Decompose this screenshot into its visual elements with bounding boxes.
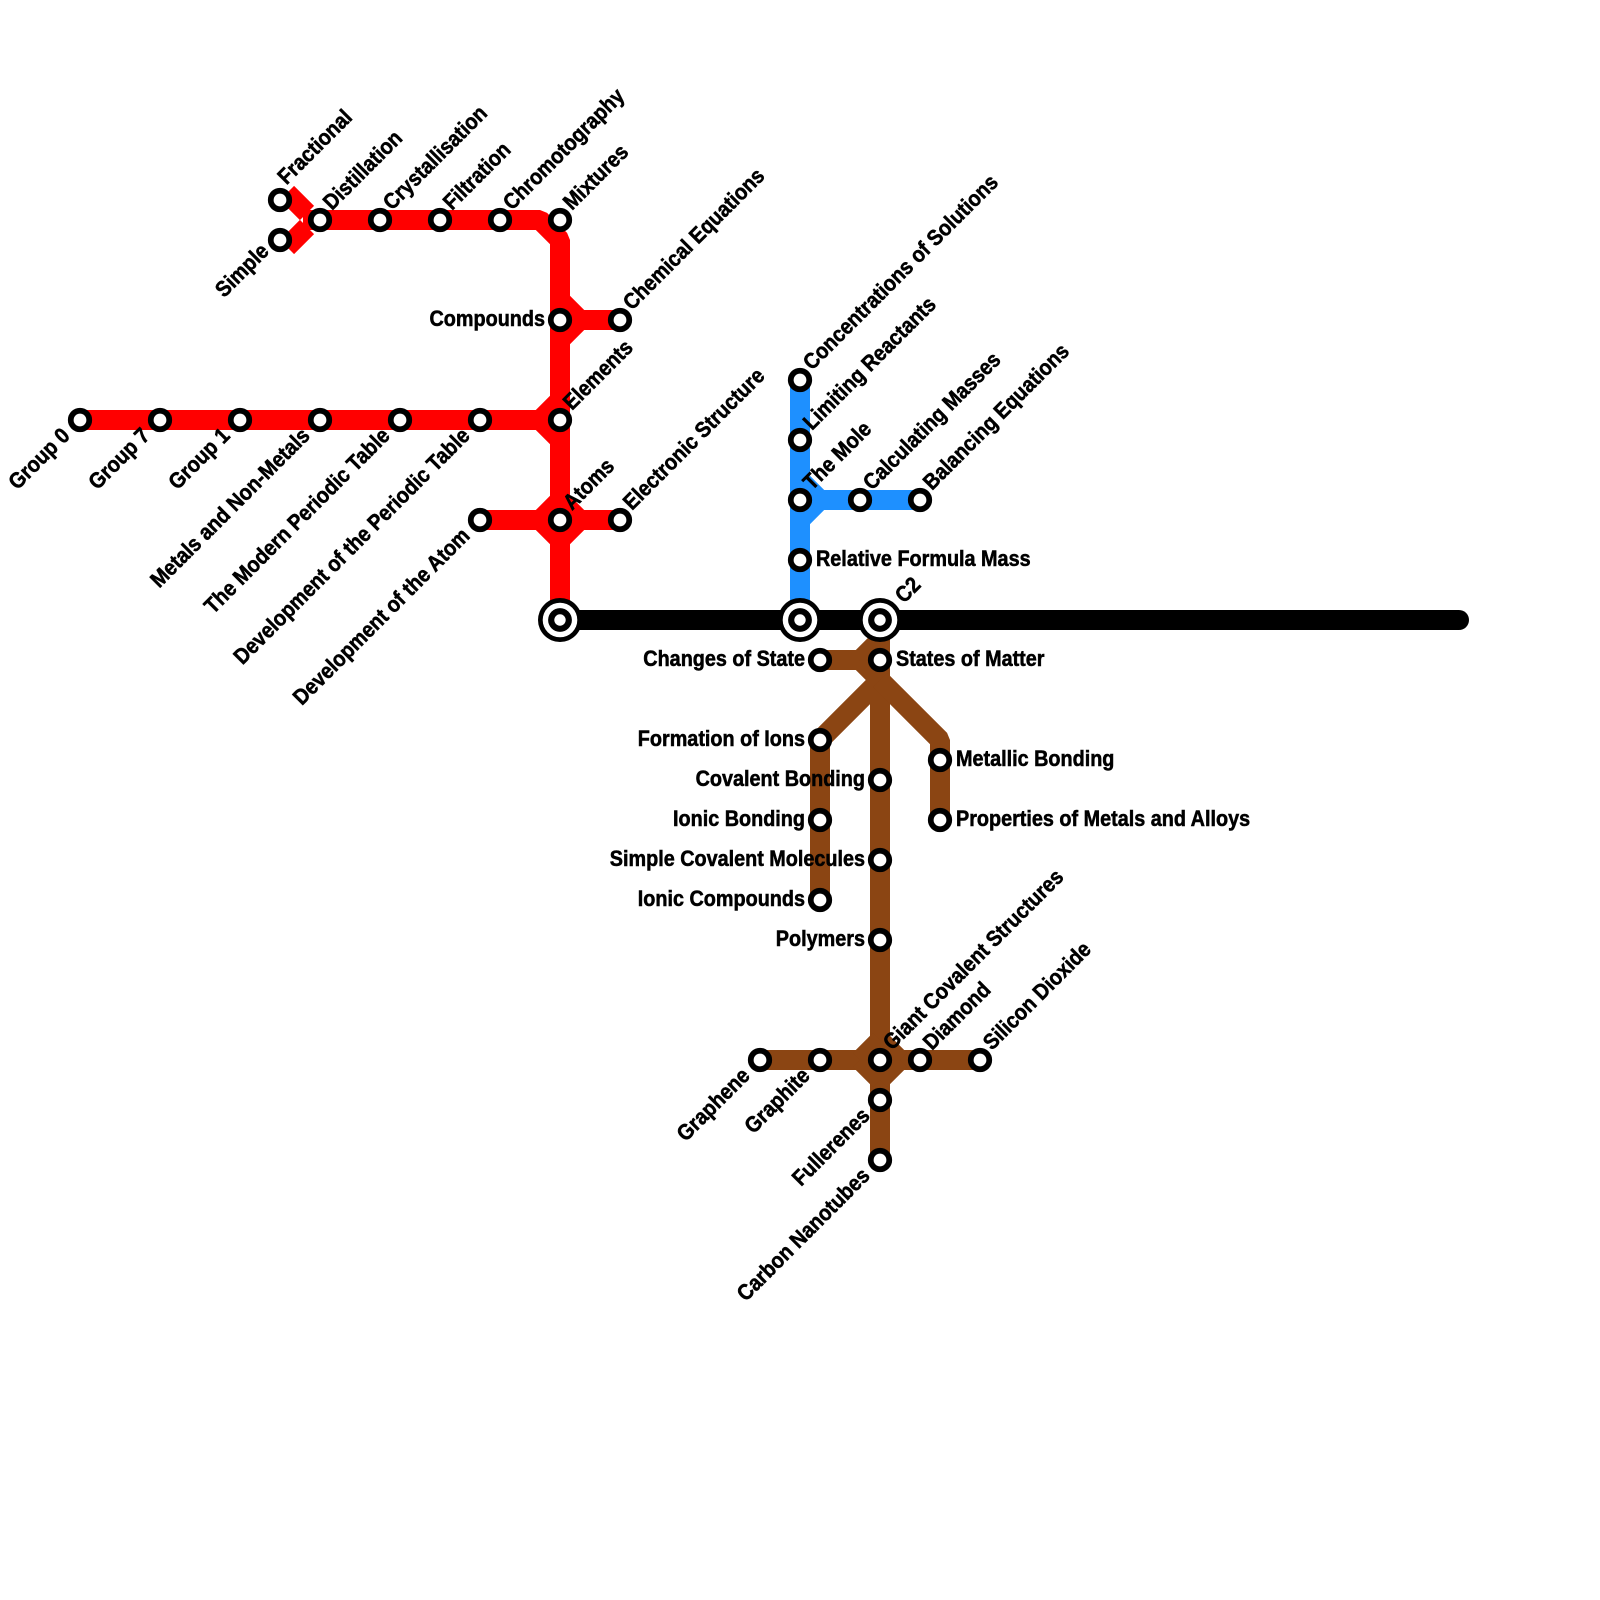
station Carbon Nanotubes (871, 1151, 890, 1170)
svg-text:Metallic Bonding: Metallic Bonding (956, 746, 1114, 771)
brown flare stubs at Giant Covalent Structures (860, 1040, 900, 1080)
station Fractional (271, 191, 290, 210)
station Mixtures (551, 211, 570, 230)
svg-text:Covalent Bonding: Covalent Bonding (696, 766, 865, 791)
red branch Compounds to Chemical Equations with flare stubs (560, 300, 620, 340)
interchange red/main (538, 598, 582, 642)
station Silicon Dioxide (971, 1051, 990, 1070)
svg-text:Changes of State: Changes of State (643, 646, 805, 671)
station Electronic Structure (611, 511, 630, 530)
red line: Simple spur (287, 227, 307, 247)
station Balancing Equations (911, 491, 930, 510)
brown flare stubs at States of Matter spur (860, 640, 880, 680)
red flare stubs at Atoms (540, 500, 580, 540)
station Polymers (871, 931, 890, 950)
svg-text:Simple Covalent Molecules: Simple Covalent Molecules (610, 846, 865, 871)
station The Modern Periodic Table (391, 411, 410, 430)
svg-text:Ionic Bonding: Ionic Bonding (673, 806, 805, 831)
station Concentrations of Solutions (791, 371, 810, 390)
station Ionic Bonding (811, 811, 830, 830)
blue line trunk Concentrations to interchange (790, 380, 810, 620)
station Group 1 (231, 411, 250, 430)
interchange C2 brown/main (858, 598, 902, 642)
station Changes of State (811, 651, 830, 670)
station Compounds (551, 311, 570, 330)
station Limiting Reactants (791, 431, 810, 450)
svg-text:Polymers: Polymers (776, 926, 865, 951)
station Metallic Bonding (931, 751, 950, 770)
red flare stubs at Elements (540, 400, 560, 440)
station Development of the Atom (471, 511, 490, 530)
red line: Fractional fork + top row + trunk down to interchange (303, 220, 560, 620)
station Elements (551, 411, 570, 430)
station Simple (271, 231, 290, 250)
brown trunk C2 down to Carbon Nanotubes (870, 620, 890, 1160)
blue branch to Balancing Equations with flare stubs (800, 480, 920, 520)
brown right branch to Properties of Metals and Alloys (880, 680, 940, 820)
station Ionic Compounds (811, 891, 830, 910)
station Group 0 (71, 411, 90, 430)
svg-text:Compounds: Compounds (430, 306, 546, 331)
brown spur Changes of State (820, 650, 880, 670)
station Chemical Equations (611, 311, 630, 330)
svg-text:Ionic Compounds: Ionic Compounds (638, 886, 805, 911)
station Simple Covalent Molecules (871, 851, 890, 870)
station Group 7 (151, 411, 170, 430)
station Covalent Bonding (871, 771, 890, 790)
station Graphene (751, 1051, 770, 1070)
svg-text:Properties of Metals and Alloy: Properties of Metals and Alloys (956, 806, 1250, 831)
station Crystallisation (371, 211, 390, 230)
red Atoms row (480, 510, 620, 530)
station Fullerenes (871, 1091, 890, 1110)
station Filtration (431, 211, 450, 230)
interchange blue/main (778, 598, 822, 642)
station The Mole (791, 491, 810, 510)
station Chromotography (491, 211, 510, 230)
station Diamond (911, 1051, 930, 1070)
svg-text:Formation of Ions: Formation of Ions (638, 726, 805, 751)
station Properties of Metals and Alloys (931, 811, 950, 830)
station Graphite (811, 1051, 830, 1070)
station Giant Covalent Structures (871, 1051, 890, 1070)
station Distillation (311, 211, 330, 230)
brown left branch to Ionic Compounds (820, 680, 880, 900)
red line: Group row (80, 410, 560, 430)
station Relative Formula Mass (791, 551, 810, 570)
main line C (black horizontal) (560, 610, 1459, 630)
brown Giant Covalent row (760, 1050, 980, 1070)
svg-text:Relative Formula Mass: Relative Formula Mass (816, 546, 1031, 571)
station Formation of Ions (811, 731, 830, 750)
station Calculating Masses (851, 491, 870, 510)
svg-text:States of Matter: States of Matter (896, 646, 1045, 671)
station Metals and Non-Metals (311, 411, 330, 430)
red fork diagonal from Fractional (287, 193, 307, 213)
station States of Matter (871, 651, 890, 670)
station Atoms (551, 511, 570, 530)
station Development of the Periodic Table (471, 411, 490, 430)
